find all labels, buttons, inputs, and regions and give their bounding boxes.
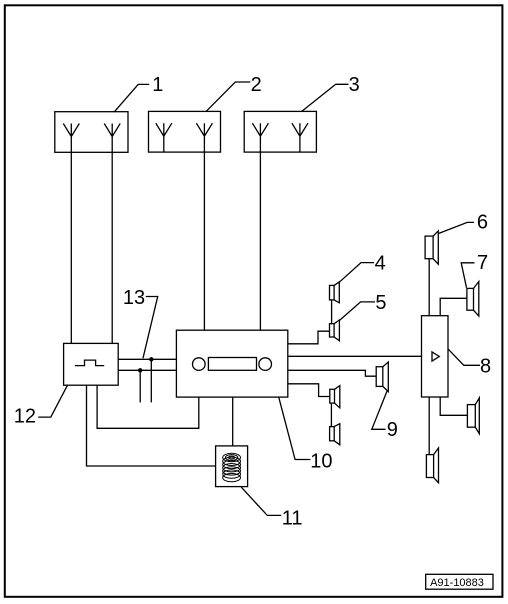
speaker 7 (467, 282, 479, 317)
svg-text:3: 3 (349, 74, 360, 96)
svg-text:2: 2 (251, 74, 262, 96)
svg-text:6: 6 (477, 212, 488, 234)
coil box 11 (216, 446, 248, 487)
antenna box 2 (149, 111, 221, 152)
wire speaker pair stub (330, 403, 332, 427)
wire antenna1a to box12 (70, 152, 72, 343)
speaker 4 (330, 282, 340, 303)
wire amplifier to speaker 6 (428, 259, 430, 316)
speaker bottom (426, 448, 438, 483)
drawing number box A91-10883 (426, 574, 493, 589)
radio unit box 10 (176, 330, 287, 397)
speaker 6 (425, 231, 438, 264)
wire stub 13b (139, 370, 141, 402)
wire stub 13a (150, 359, 152, 402)
label 13 leader (143, 297, 158, 359)
speaker rear lower (330, 424, 340, 445)
filter box 12 (64, 343, 119, 385)
svg-text:1: 1 (152, 74, 163, 96)
wire amplifier to speaker 7 (440, 298, 467, 315)
label 7 leader (461, 263, 474, 288)
wire box12 to radio bottom (97, 385, 199, 428)
svg-text:12: 12 (14, 406, 36, 428)
amplifier U8 (422, 316, 449, 397)
label 10 leader (279, 397, 311, 459)
node junction upper stub (149, 357, 153, 361)
wire antenna2 to radio (203, 152, 205, 330)
svg-text:9: 9 (387, 419, 398, 441)
label 1 leader (114, 84, 149, 112)
speaker right lower (467, 398, 479, 434)
wire radio to amplifier (288, 355, 422, 357)
label 4 leader (339, 263, 374, 283)
wire radio to lower speaker pair (288, 384, 330, 397)
speaker 9 (376, 362, 388, 392)
label 3 leader (302, 84, 349, 111)
wire amplifier to speaker right lower (440, 397, 467, 415)
label 12 leader (38, 385, 67, 417)
label 6 leader (439, 222, 475, 233)
wire radio to speaker 5 (288, 331, 330, 344)
label 11 leader (241, 487, 281, 515)
svg-text:4: 4 (375, 253, 386, 275)
wire box12 to radio upper (118, 358, 176, 360)
label 8 leader (448, 349, 480, 365)
svg-text:13: 13 (123, 287, 145, 309)
wire antenna3 to radio (259, 152, 261, 330)
svg-text:11: 11 (282, 508, 303, 530)
wire amplifier to speaker bottom (428, 397, 430, 455)
antenna box 1 (55, 112, 128, 153)
node junction lower stub (138, 368, 142, 372)
wire speaker4 to speaker5 (331, 300, 333, 324)
label 5 leader (339, 302, 375, 321)
svg-text:10: 10 (310, 450, 332, 472)
label 9 leader (372, 391, 387, 430)
antenna box 3 (244, 111, 316, 152)
speaker 5 (330, 320, 340, 341)
wire radio to speaker 9 (288, 370, 376, 376)
label 2 leader (206, 82, 250, 111)
speaker rear upper (330, 386, 340, 408)
svg-text:7: 7 (477, 252, 488, 274)
wire box12 to coil box (87, 385, 216, 466)
svg-text:A91-10883: A91-10883 (430, 577, 484, 589)
svg-text:5: 5 (375, 292, 386, 314)
wire antenna1b to box12 (111, 152, 113, 343)
svg-text:8: 8 (480, 355, 491, 377)
wire box12 to radio lower (118, 369, 176, 371)
wire radio to coil box (232, 397, 234, 446)
